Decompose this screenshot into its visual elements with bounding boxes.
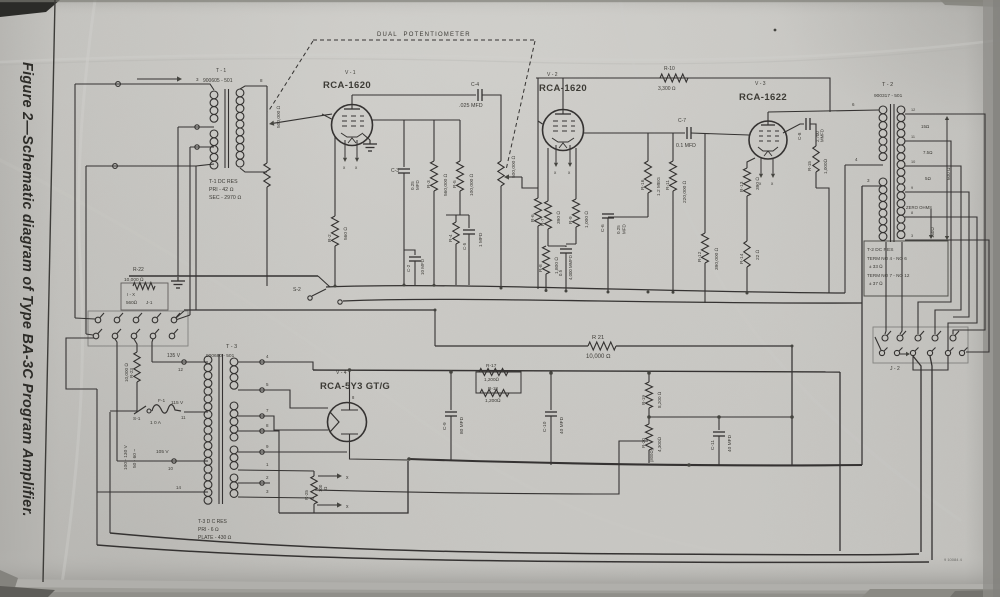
capacitor C11 bbox=[718, 417, 720, 430]
svg-text:11: 11 bbox=[911, 135, 915, 139]
svg-text:8,200 Ω: 8,200 Ω bbox=[657, 391, 662, 408]
svg-text:TERM NO 7 - NO 12: TERM NO 7 - NO 12 bbox=[867, 273, 910, 278]
svg-text:900680 - 501: 900680 - 501 bbox=[206, 353, 235, 359]
svg-text:± 33 Ω: ± 33 Ω bbox=[869, 264, 883, 269]
connector J2 outline bbox=[873, 327, 968, 363]
tube V1 grid lead bbox=[322, 114, 332, 119]
wire R4 C5 top node bbox=[446, 214, 469, 216]
transformer T3 secondary winding b bbox=[230, 402, 238, 410]
svg-text:390,000 Ω: 390,000 Ω bbox=[714, 247, 720, 270]
tube V1 filament pins bbox=[344, 140, 346, 158]
svg-text:V - 4: V - 4 bbox=[336, 370, 347, 376]
svg-text:105 V: 105 V bbox=[156, 449, 169, 455]
svg-text:560,000 Ω: 560,000 Ω bbox=[443, 173, 449, 196]
transformer T2 core bbox=[890, 104, 892, 242]
transformer T3 core bbox=[218, 354, 220, 504]
svg-text:PRI - 6 Ω: PRI - 6 Ω bbox=[198, 527, 219, 533]
wire T3 tap 135V bbox=[152, 361, 208, 363]
svg-text:MFD: MFD bbox=[622, 224, 627, 234]
wire bus C from J1 bbox=[184, 309, 435, 311]
wire T3 terminal 7 to V4 bbox=[238, 416, 328, 430]
wire plate supply bus bbox=[536, 78, 830, 112]
connector J2 bottom row terminals bbox=[879, 350, 884, 355]
node input terminal bottom bbox=[113, 164, 118, 169]
tube V4 filament bbox=[330, 412, 339, 432]
tube V2 plate lead bbox=[562, 78, 564, 114]
svg-text:0.1 MFD: 0.1 MFD bbox=[676, 143, 696, 149]
svg-text:1 0 A: 1 0 A bbox=[150, 420, 162, 426]
transformer T3 secondary winding c bbox=[230, 446, 238, 454]
tube V2 envelope bbox=[543, 110, 584, 151]
svg-text:22 Ω: 22 Ω bbox=[755, 249, 761, 260]
tube V2 plate bar bbox=[555, 113, 571, 115]
wire input line 2 bbox=[86, 165, 196, 167]
svg-text:3: 3 bbox=[911, 234, 913, 238]
tube V4 plate bottom bbox=[341, 434, 358, 441]
svg-text:3,300 Ω: 3,300 Ω bbox=[658, 86, 676, 92]
wire R21 to rectifier bus bbox=[791, 346, 793, 465]
annotation 150 ohm span bbox=[930, 209, 932, 235]
resistor R14 bbox=[744, 241, 750, 267]
wire T1 primary tap b bbox=[190, 146, 214, 148]
svg-text:Figure 2—Schematic diagram of: Figure 2—Schematic diagram of Type BA-3C… bbox=[19, 62, 35, 517]
wire heavy lead from J1 to S2 bbox=[129, 275, 318, 277]
svg-text:C-8: C-8 bbox=[797, 132, 802, 140]
svg-text:390 Ω: 390 Ω bbox=[556, 211, 562, 224]
svg-text:T-2 DC RES: T-2 DC RES bbox=[867, 247, 893, 253]
tube V4 plate top bbox=[341, 403, 358, 410]
wire bottom return lower bbox=[97, 545, 929, 562]
wire input down-lead J-1 left B bbox=[85, 166, 87, 334]
svg-text:DUAL POTENTIOMETER: DUAL POTENTIOMETER bbox=[377, 32, 471, 38]
tube V1 cathode bbox=[341, 133, 363, 137]
resistor R23 bbox=[134, 339, 137, 352]
svg-text:R-4: R-4 bbox=[448, 234, 454, 242]
svg-text:R-20: R-20 bbox=[641, 438, 646, 448]
svg-text:R-23: R-23 bbox=[129, 368, 134, 378]
svg-text:1,000 Ω: 1,000 Ω bbox=[584, 211, 590, 228]
capacitor C10 bbox=[550, 373, 552, 410]
svg-text:10: 10 bbox=[911, 160, 915, 164]
relay coil box J1 bbox=[121, 283, 168, 310]
tube V1 cathode pin to ground bbox=[363, 134, 370, 140]
svg-text:PRI - 42 Ω: PRI - 42 Ω bbox=[209, 187, 233, 193]
svg-text:11: 11 bbox=[181, 415, 186, 420]
svg-text:R-19: R-19 bbox=[641, 395, 646, 405]
svg-text:RCA-5Y3 GT/G: RCA-5Y3 GT/G bbox=[320, 381, 390, 392]
svg-text:12: 12 bbox=[911, 108, 915, 112]
svg-text:R-3: R-3 bbox=[426, 180, 432, 188]
transformer T2 primary winding lower bbox=[879, 178, 887, 186]
wire V1 pin4 right bbox=[373, 119, 435, 121]
wire filament tap arrows bbox=[318, 475, 337, 477]
svg-text:ZERO OHMS: ZERO OHMS bbox=[906, 205, 932, 210]
tube V1 grid internals bbox=[342, 116, 364, 126]
svg-text:S-2: S-2 bbox=[293, 287, 301, 293]
potentiometer 500k interstage bbox=[498, 161, 504, 186]
svg-text:V - 3: V - 3 bbox=[755, 81, 766, 87]
svg-text:135 V: 135 V bbox=[167, 353, 181, 359]
resistor R10 bbox=[660, 74, 688, 82]
capacitor C6 bbox=[608, 216, 648, 218]
tube V3 envelope bbox=[749, 121, 787, 159]
svg-text:40 MFD: 40 MFD bbox=[727, 434, 733, 452]
wire T2 terminal 3 bbox=[862, 185, 883, 187]
tube V1 plate bar bbox=[344, 108, 360, 110]
wire heavy ground bus bbox=[409, 459, 862, 465]
svg-text:14: 14 bbox=[176, 485, 181, 490]
svg-text:100,000 Ω: 100,000 Ω bbox=[469, 173, 475, 196]
resistor R5 bbox=[459, 120, 461, 161]
dashed callout left line bbox=[268, 41, 313, 112]
wire T2 tap 10 bbox=[905, 166, 961, 334]
resistor R19 bbox=[648, 373, 650, 382]
resistor R11 bbox=[672, 133, 674, 161]
tube V3 filament pins bbox=[760, 158, 762, 174]
svg-text:R-10: R-10 bbox=[664, 66, 675, 72]
svg-text:MFD: MFD bbox=[415, 180, 420, 190]
tube V3 plate lead bbox=[767, 112, 769, 125]
svg-text:S-1: S-1 bbox=[133, 416, 141, 422]
svg-text:9: 9 bbox=[911, 186, 913, 190]
potentiometer volume control on T1 secondary bbox=[266, 86, 268, 163]
svg-text:R-25: R-25 bbox=[304, 490, 309, 500]
svg-text:600 Ω: 600 Ω bbox=[946, 167, 951, 180]
transformer T1 core bbox=[224, 89, 226, 168]
svg-text:900317 - 501: 900317 - 501 bbox=[874, 93, 903, 99]
svg-text:8: 8 bbox=[911, 211, 913, 215]
wire terminal 3 down bbox=[861, 186, 863, 465]
wire filter mid link bbox=[649, 416, 792, 418]
tube V3 grid internals bbox=[759, 131, 779, 141]
svg-text:T-3 D C RES: T-3 D C RES bbox=[198, 519, 228, 525]
svg-text:R-2: R-2 bbox=[327, 234, 333, 242]
svg-text:R-8: R-8 bbox=[538, 264, 544, 272]
svg-text:220,000 Ω: 220,000 Ω bbox=[682, 180, 688, 203]
svg-text:560Ω: 560Ω bbox=[126, 300, 138, 305]
svg-text:V - 1: V - 1 bbox=[345, 70, 356, 76]
wire PSU bus right drop bbox=[839, 372, 841, 551]
svg-text:C-11: C-11 bbox=[710, 440, 716, 450]
svg-text:10 MFD: 10 MFD bbox=[420, 258, 425, 275]
dashed callout right line bbox=[506, 41, 535, 170]
svg-text:1 MFD: 1 MFD bbox=[478, 232, 484, 247]
wire T2 terminal 4 bbox=[845, 164, 883, 166]
wire J2 left slant bbox=[875, 337, 881, 350]
tube V4 cathode lead down bbox=[350, 441, 409, 460]
resistor R17 R18 box bbox=[476, 372, 521, 393]
svg-text:5Ω: 5Ω bbox=[925, 176, 931, 181]
wire grid feed V2 vertical bbox=[537, 78, 539, 188]
tube V1 envelope bbox=[332, 105, 373, 146]
svg-text:150Ω: 150Ω bbox=[930, 227, 935, 238]
wire S1 down to bottom line bbox=[109, 412, 111, 533]
svg-text:7.5Ω: 7.5Ω bbox=[923, 150, 932, 155]
svg-text:1.2 MEG: 1.2 MEG bbox=[656, 177, 662, 196]
svg-text:R 21: R 21 bbox=[592, 335, 604, 341]
wire PSU top bus bbox=[313, 370, 840, 372]
svg-text:RCA-1620: RCA-1620 bbox=[323, 80, 371, 91]
wire J2 output drop B bbox=[930, 356, 932, 560]
svg-text:I - X: I - X bbox=[127, 292, 135, 297]
connector J1 outline bbox=[88, 311, 188, 346]
arrow J2 link bbox=[900, 353, 906, 355]
svg-text:Ω: Ω bbox=[323, 487, 328, 490]
resistor R15 bbox=[810, 124, 816, 146]
svg-text:.025 MFD: .025 MFD bbox=[459, 103, 483, 109]
svg-text:0.25: 0.25 bbox=[616, 225, 621, 234]
svg-text:500,000 Ω: 500,000 Ω bbox=[511, 155, 517, 178]
junction dots bbox=[407, 457, 411, 461]
capacitor C3 bbox=[403, 120, 405, 167]
transformer T3 primary winding bbox=[204, 356, 212, 364]
wire bus C drop bbox=[434, 310, 436, 346]
tube V3 screen lead to C8 bbox=[783, 124, 804, 133]
svg-text:390 Ω: 390 Ω bbox=[755, 177, 761, 190]
wire T2 tap 8 bbox=[905, 217, 977, 350]
resistor R13 bbox=[747, 158, 755, 168]
tube V2 grid internals bbox=[553, 121, 575, 131]
svg-text:1,200Ω: 1,200Ω bbox=[484, 377, 499, 382]
wire J2 jumper U link bbox=[913, 356, 948, 370]
wire tap a to ground bbox=[177, 127, 179, 276]
wire T3 tap 105V bbox=[117, 460, 208, 462]
wire J2 output drop A bbox=[913, 356, 921, 552]
svg-text:C-4: C-4 bbox=[471, 82, 479, 88]
wire R25 center tap to bleeder step bbox=[315, 441, 648, 494]
transformer T2 secondary winding bbox=[897, 106, 905, 114]
svg-text:900605 - 501: 900605 - 501 bbox=[203, 78, 233, 84]
tube V2 grid lead bbox=[538, 121, 543, 124]
svg-text:15Ω: 15Ω bbox=[921, 124, 929, 129]
wire T2 tap 9 bbox=[905, 192, 969, 317]
wire T1 secondary bottom lead bbox=[240, 168, 267, 172]
tube V4 envelope bbox=[328, 403, 367, 442]
svg-text:R-13: R-13 bbox=[739, 181, 745, 192]
connector J2 top row terminals bbox=[882, 335, 888, 341]
wire T3 terminal 8 L-bend bbox=[238, 431, 279, 513]
wire T2 bottom tap bbox=[905, 240, 989, 352]
resistor R7 bbox=[547, 148, 549, 201]
wire J1 to T3 135V bbox=[152, 339, 153, 362]
resistor R16 bbox=[647, 133, 649, 161]
transformer T1 primary winding lower bbox=[210, 130, 218, 138]
svg-text:T - 3: T - 3 bbox=[226, 344, 237, 350]
svg-text:C-3: C-3 bbox=[391, 168, 399, 174]
resistor R21 bbox=[435, 345, 588, 347]
resistor R8 bbox=[543, 246, 550, 274]
wire T1 terminal 3 lead bbox=[205, 84, 214, 90]
wire common down to bottom line bbox=[96, 389, 98, 545]
capacitor C8 bbox=[805, 118, 807, 130]
tube V3 heater bbox=[764, 151, 772, 156]
wire T1 primary tap a bbox=[178, 126, 214, 128]
svg-text:T - 2: T - 2 bbox=[882, 82, 893, 88]
svg-text:R-16: R-16 bbox=[640, 179, 646, 190]
wire bottom link under T3 bbox=[279, 461, 408, 513]
wire T2 coil bottom leads to J2 bbox=[885, 242, 886, 334]
tube V4 plate lead to bus bbox=[349, 370, 351, 403]
svg-text:C-7: C-7 bbox=[678, 118, 686, 124]
wire T3 terminal 1 to R25 bbox=[238, 470, 314, 471]
tube V2 filament pins bbox=[555, 145, 557, 163]
wire J1 to T3 105V bbox=[115, 339, 117, 461]
svg-text:F-1: F-1 bbox=[158, 398, 166, 404]
svg-text:C-6: C-6 bbox=[600, 224, 606, 232]
tube V3 cathode bbox=[758, 147, 778, 151]
svg-text:R-22: R-22 bbox=[133, 267, 144, 273]
node input terminal top bbox=[116, 82, 121, 87]
wire T2 tap 12 bbox=[905, 114, 985, 334]
capacitor C9 bbox=[450, 372, 452, 410]
wire T3 tap 14 common bbox=[97, 491, 208, 493]
svg-text:C-9: C-9 bbox=[442, 422, 448, 430]
svg-text:SEC - 2970 Ω: SEC - 2970 Ω bbox=[209, 195, 241, 201]
fuse F1 and switch S1 bbox=[184, 411, 208, 413]
svg-text:4,000 MMFD: 4,000 MMFD bbox=[568, 255, 573, 280]
wire T1 primary bottom tap bbox=[196, 164, 214, 166]
svg-text:R-7: R-7 bbox=[540, 218, 546, 226]
wire T3 terminal 3 to R25 bottom bbox=[238, 497, 314, 498]
svg-text:TERM NO 4 - NO 6: TERM NO 4 - NO 6 bbox=[867, 256, 907, 261]
svg-text:C-10: C-10 bbox=[542, 421, 548, 432]
svg-text:100 - 130 V: 100 - 130 V bbox=[123, 444, 129, 470]
svg-text:560 Ω: 560 Ω bbox=[343, 227, 349, 240]
wire T3 terminal 5 to V4 bbox=[238, 390, 328, 408]
svg-text:4,300Ω: 4,300Ω bbox=[657, 437, 662, 452]
svg-text:R-12: R-12 bbox=[697, 251, 703, 262]
wire R5 top link bbox=[434, 119, 460, 121]
svg-text:R-5: R-5 bbox=[452, 180, 458, 188]
resistor R6 bbox=[537, 188, 539, 198]
svg-text:RCA-1622: RCA-1622 bbox=[739, 92, 787, 103]
svg-text:R-15: R-15 bbox=[807, 161, 812, 171]
wire T3 terminal 2 stub bbox=[238, 482, 270, 484]
tube V3 plate bar bbox=[761, 124, 775, 126]
dark page edges bbox=[0, 0, 60, 17]
wire bus B bbox=[343, 299, 862, 303]
wire wiper to V1 grid bbox=[274, 114, 332, 123]
connector J1 top row terminals bbox=[95, 317, 101, 323]
wire pot wiper to V2 grid bbox=[509, 176, 522, 178]
capacitor bypass 4000 MMFD bbox=[548, 244, 576, 247]
junction dots on bus A bbox=[334, 285, 337, 288]
svg-text:MMFD: MMFD bbox=[820, 129, 825, 142]
svg-text:R-6: R-6 bbox=[530, 214, 536, 222]
wire V1 plate to C4 bbox=[352, 94, 476, 96]
resistor R20 bbox=[648, 417, 650, 424]
svg-text:10,000 Ω: 10,000 Ω bbox=[586, 354, 611, 360]
wire J1 to bus C bbox=[176, 311, 184, 318]
transformer T1 primary winding upper bbox=[210, 91, 218, 99]
resistor R4 bbox=[455, 215, 457, 222]
dashed callout top line bbox=[313, 39, 535, 41]
transformer T1 secondary winding bbox=[236, 89, 244, 97]
caption fold line bbox=[43, 0, 55, 582]
wire T1 secondary top lead bbox=[240, 86, 267, 89]
wire C4 to pot bbox=[482, 95, 501, 161]
capacitor C2 bbox=[404, 250, 415, 255]
svg-text:9 10084 4: 9 10084 4 bbox=[944, 557, 963, 562]
capacitor C7 bbox=[686, 127, 688, 139]
wire J1 left return bbox=[66, 338, 97, 389]
tube V2 cathode bbox=[552, 138, 574, 142]
wire C7 to V3 grid bbox=[691, 133, 749, 135]
wire input line 1 bbox=[75, 83, 205, 85]
svg-text:10: 10 bbox=[168, 466, 173, 471]
resistor R3 bbox=[433, 120, 435, 161]
svg-text:R-9: R-9 bbox=[568, 216, 574, 224]
speck bbox=[774, 29, 777, 32]
wire R15 down to bus bbox=[816, 188, 829, 293]
svg-text:40 MFD: 40 MFD bbox=[559, 416, 565, 434]
wire bus A bbox=[326, 286, 845, 293]
svg-text:R-14: R-14 bbox=[739, 253, 745, 264]
resistor R9 bbox=[575, 148, 577, 199]
ground at J1 bbox=[177, 277, 179, 281]
svg-text:50 - 60 ~: 50 - 60 ~ bbox=[132, 449, 138, 468]
svg-text:R-11: R-11 bbox=[665, 180, 671, 190]
wire terminal 4 down to bus bbox=[844, 165, 846, 293]
wire J1 input connections bbox=[75, 318, 95, 319]
svg-text:(800Ω): (800Ω) bbox=[649, 448, 654, 462]
resistor R12 bbox=[704, 134, 706, 233]
svg-text:T-1 DC RES: T-1 DC RES bbox=[209, 179, 238, 185]
annotation 600 ohm span bbox=[946, 120, 948, 237]
capacitor C5 bbox=[468, 215, 470, 228]
transformer T2 primary winding upper bbox=[879, 106, 887, 114]
svg-text:1,200Ω: 1,200Ω bbox=[485, 398, 501, 404]
svg-text:0.5: 0.5 bbox=[558, 269, 563, 276]
wire bottom tap down to J-1 bbox=[195, 166, 197, 310]
wire bottom return upper bbox=[110, 533, 919, 555]
svg-text:500,000 Ω: 500,000 Ω bbox=[276, 105, 282, 128]
svg-text:J - 2: J - 2 bbox=[890, 366, 900, 372]
svg-text:80 MFD: 80 MFD bbox=[459, 416, 465, 434]
wire T3 terminal 4 bbox=[238, 362, 313, 370]
wire V2 pin4 to C7 bbox=[584, 132, 686, 134]
svg-text:J-1: J-1 bbox=[146, 300, 153, 305]
svg-text:T - 1: T - 1 bbox=[216, 68, 226, 74]
wire input down-lead J-1 left A bbox=[74, 84, 76, 318]
tube V1 plate lead bbox=[351, 95, 353, 109]
svg-text:C-5: C-5 bbox=[462, 242, 467, 250]
svg-text:12: 12 bbox=[178, 367, 183, 372]
arrow signal direction bbox=[137, 78, 177, 80]
wire T2 tap 11 bbox=[905, 141, 951, 334]
svg-text:± 37 Ω: ± 37 Ω bbox=[869, 281, 883, 286]
resistor R25 bbox=[311, 476, 317, 504]
tube V2 heater bbox=[559, 143, 567, 148]
wire tap b down to J-1 bbox=[189, 147, 191, 315]
tube V1 heater bbox=[348, 138, 356, 143]
wire V3 plate to T2 terminal 6 bbox=[768, 110, 879, 112]
svg-text:1,000Ω: 1,000Ω bbox=[823, 159, 828, 174]
svg-text:V - 2: V - 2 bbox=[547, 72, 558, 78]
resistor R2 bbox=[334, 137, 336, 216]
connector J1 bottom row terminals bbox=[93, 333, 99, 339]
svg-text:C-2: C-2 bbox=[406, 264, 411, 272]
wire T3 terminal 9 to V4 filament bbox=[238, 451, 347, 453]
transformer T3 secondary winding d bbox=[230, 474, 238, 482]
transformer T3 secondary winding a bbox=[230, 358, 238, 366]
label T2 DC RES box bbox=[864, 241, 948, 296]
